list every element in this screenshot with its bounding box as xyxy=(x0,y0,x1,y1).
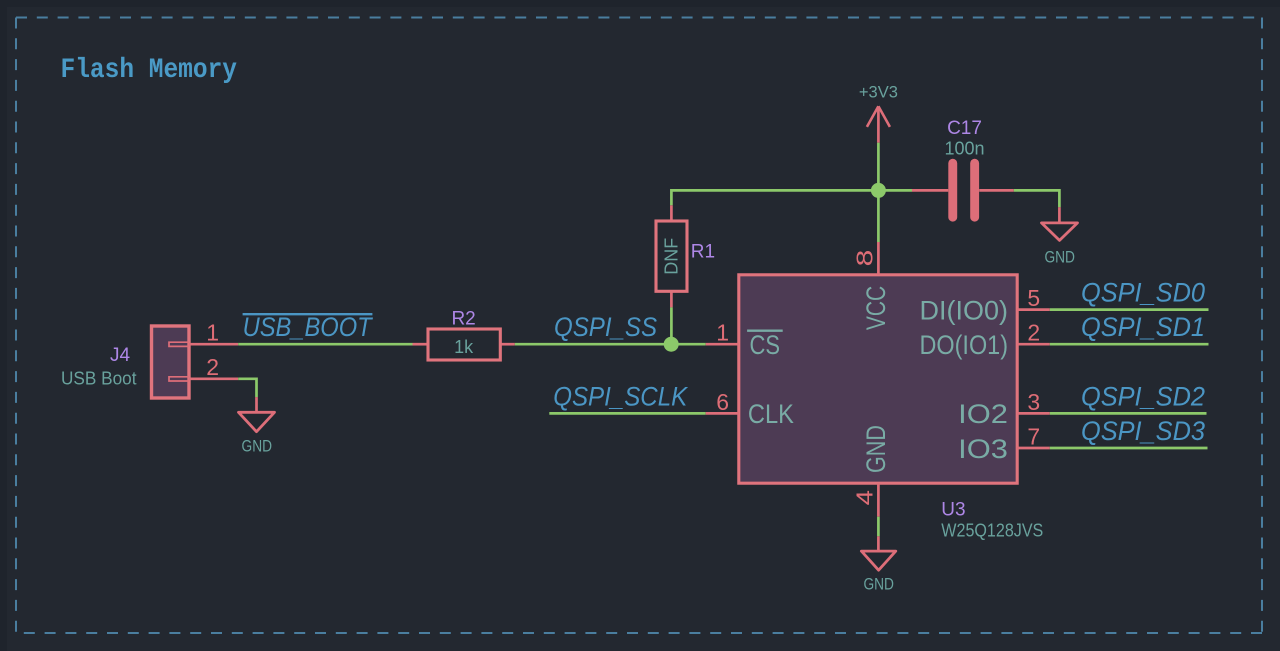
U3 pin 2 DO(IO1) xyxy=(920,320,1050,360)
wire +3V3 down to rail xyxy=(877,143,880,191)
svg-text:Flash Memory: Flash Memory xyxy=(61,55,238,86)
svg-text:IO3: IO3 xyxy=(958,434,1008,464)
U3 pin 3 IO2 xyxy=(958,389,1050,429)
svg-text:QSPI_SCLK: QSPI_SCLK xyxy=(553,381,688,411)
wire QSPI_SD1 xyxy=(1050,343,1209,346)
resistor R1 (DNF) xyxy=(656,205,715,307)
U3 pin 5 DI(IO0) xyxy=(920,285,1050,325)
svg-text:4: 4 xyxy=(853,490,878,505)
svg-text:GND: GND xyxy=(1044,248,1075,266)
wire U3 GND pin down xyxy=(877,517,880,537)
svg-text:5: 5 xyxy=(1027,285,1040,311)
J4 pin 1 xyxy=(189,343,238,346)
svg-text:1: 1 xyxy=(206,320,219,346)
wire QSPI_SD2 xyxy=(1050,412,1207,415)
U3 pin 1 CS xyxy=(706,320,783,360)
ground symbol GND (bottom) xyxy=(861,536,895,593)
svg-text:1: 1 xyxy=(716,320,729,346)
svg-text:QSPI_SS: QSPI_SS xyxy=(554,312,657,342)
power symbol +3V3 xyxy=(859,84,898,143)
svg-text:J4: J4 xyxy=(110,345,131,366)
flash memory U3 body xyxy=(739,275,1017,483)
ground symbol GND (right of C17) xyxy=(1042,207,1078,266)
svg-text:USB_BOOT: USB_BOOT xyxy=(243,312,374,342)
junction node +3V3 rail xyxy=(871,183,886,198)
net label USB_BOOT with overline xyxy=(243,312,374,342)
svg-text:IO2: IO2 xyxy=(958,399,1008,429)
svg-text:CS: CS xyxy=(750,330,781,360)
wire R2 to junction xyxy=(515,343,672,346)
svg-text:8: 8 xyxy=(852,250,878,267)
svg-text:+3V3: +3V3 xyxy=(859,84,898,102)
svg-text:USB Boot: USB Boot xyxy=(61,368,137,388)
wire QSPI_SD3 xyxy=(1050,447,1208,450)
svg-text:CLK: CLK xyxy=(748,399,794,429)
svg-text:DO(IO1): DO(IO1) xyxy=(920,330,1009,360)
J4 pin 2 xyxy=(189,377,238,380)
wire QSPI_SD0 xyxy=(1050,308,1209,311)
resistor R2 xyxy=(413,308,515,360)
svg-text:W25Q128JVS: W25Q128JVS xyxy=(941,520,1043,540)
svg-text:R2: R2 xyxy=(451,308,475,329)
svg-text:1k: 1k xyxy=(454,337,474,357)
svg-text:C17: C17 xyxy=(947,118,982,139)
wire rail down to U3 VCC pin xyxy=(877,190,880,242)
svg-text:U3: U3 xyxy=(941,500,965,521)
wire C17 to gnd xyxy=(1014,190,1060,207)
svg-text:QSPI_SD3: QSPI_SD3 xyxy=(1081,416,1205,446)
svg-text:3: 3 xyxy=(1027,389,1040,415)
wire R1 bottom to junction xyxy=(670,307,673,344)
wire QSPI_SCLK xyxy=(549,412,705,415)
svg-text:GND: GND xyxy=(242,437,273,455)
wire USB_BOOT net xyxy=(238,343,412,346)
U3 pin 4 GND xyxy=(853,425,891,517)
svg-text:100n: 100n xyxy=(944,138,984,158)
svg-text:R1: R1 xyxy=(691,242,715,263)
U3 pin 8 VCC xyxy=(852,242,891,330)
svg-text:7: 7 xyxy=(1027,423,1040,449)
svg-text:2: 2 xyxy=(206,354,219,380)
connector J4 body xyxy=(152,326,190,398)
svg-text:QSPI_SD1: QSPI_SD1 xyxy=(1081,312,1205,342)
wire pin2 to gnd xyxy=(238,379,256,397)
svg-text:VCC: VCC xyxy=(861,286,891,330)
sheet edge shading xyxy=(0,0,7,651)
J4 pin2 notch xyxy=(169,377,189,381)
ground symbol GND (left) xyxy=(239,397,275,455)
U3 pin 6 CLK xyxy=(706,389,794,429)
wire R1 top rail to C17 xyxy=(671,190,912,205)
svg-text:6: 6 xyxy=(716,389,729,415)
svg-text:GND: GND xyxy=(863,575,894,593)
junction node QSPI_SS xyxy=(664,337,679,352)
capacitor C17 xyxy=(912,118,1014,222)
svg-text:QSPI_SD2: QSPI_SD2 xyxy=(1081,381,1205,411)
J4 pin1 notch xyxy=(169,342,189,346)
wire junction to U3 pin1 xyxy=(671,343,706,346)
svg-text:DI(IO0): DI(IO0) xyxy=(920,295,1009,325)
svg-text:GND: GND xyxy=(861,425,891,473)
svg-text:DNF: DNF xyxy=(662,238,682,275)
svg-text:QSPI_SD0: QSPI_SD0 xyxy=(1081,278,1205,308)
U3 pin 7 IO3 xyxy=(958,423,1050,463)
svg-text:2: 2 xyxy=(1027,320,1040,346)
